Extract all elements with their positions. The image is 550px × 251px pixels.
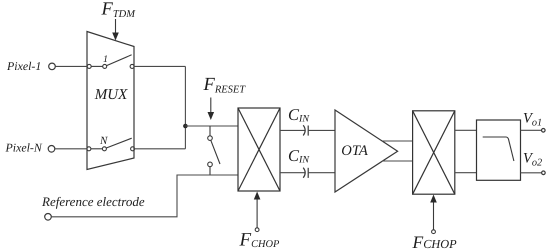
V_o2 terminal: [542, 171, 546, 175]
node junction dot: [183, 124, 188, 129]
wire chopper2 to filter B: [455, 172, 477, 174]
wire Pixel-1 to MUX: [55, 65, 87, 67]
svg-text:Pixel-N: Pixel-N: [5, 141, 43, 155]
wire chopper2 to filter A: [455, 129, 477, 131]
chopper U2 box: [413, 111, 455, 194]
wire cap1 to OTA: [308, 129, 335, 131]
wire V_o2: [521, 172, 542, 174]
switch S1: [87, 55, 134, 69]
svg-text:OTA: OTA: [341, 143, 368, 159]
wire OTA out A: [382, 140, 413, 142]
svg-text:Reference electrode: Reference electrode: [41, 194, 145, 209]
wire OTA out B: [382, 160, 413, 162]
svg-text:MUX: MUX: [94, 87, 128, 103]
Reference electrode terminal: [45, 214, 52, 221]
capacitor C_IN 2: [303, 168, 308, 178]
Pixel-N terminal: [48, 146, 55, 153]
wire node to chopper1: [185, 125, 238, 127]
capacitor C_IN 1: [303, 125, 308, 135]
chopper U1 box: [238, 108, 280, 191]
low-pass filter box: [477, 120, 521, 180]
MUX trapezoid: [87, 32, 134, 170]
wire chopper1 out B: [280, 172, 306, 174]
filter response glyph: [483, 137, 514, 161]
wire cap2 to OTA: [308, 172, 335, 174]
svg-text:Pixel-1: Pixel-1: [6, 59, 41, 73]
wire MUX out row B: [134, 148, 185, 150]
op-amp OTA: [335, 110, 398, 192]
V_o1 terminal: [542, 129, 546, 133]
svg-text:N: N: [99, 135, 108, 147]
F_CHOP1 arrow: [254, 192, 261, 232]
wire V_o1: [521, 129, 542, 131]
reset switch: [208, 126, 220, 175]
Pixel-1 terminal: [49, 63, 56, 70]
wire node vertical: [184, 66, 186, 148]
F_TDM arrow: [112, 19, 119, 41]
wire Pixel-N to MUX: [55, 148, 87, 150]
wire reference electrode: [51, 175, 238, 217]
F_CHOP2 arrow: [430, 195, 437, 234]
svg-text:1: 1: [103, 54, 108, 65]
F_RESET arrow: [208, 98, 215, 121]
wire chopper1 out A: [280, 129, 306, 131]
wire MUX out row A: [134, 65, 185, 67]
switch SN: [87, 138, 135, 151]
